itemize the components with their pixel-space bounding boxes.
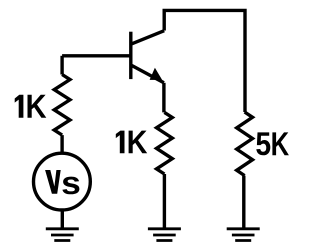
wire to source (60, 135, 63, 153)
label 5K glyph K (272, 132, 289, 155)
wire emitter vertical (162, 83, 165, 113)
transistor Q1 emitter diagonal (132, 66, 164, 83)
transistor Q1 emitter arrow (150, 68, 163, 80)
label Vs glyph s (62, 177, 79, 195)
wire base (62, 54, 129, 57)
ground under Vs (46, 229, 79, 241)
ground under 5K resistor (227, 229, 260, 241)
ground under middle resistor (148, 229, 181, 241)
resistor 1K left (54, 75, 70, 136)
wire left vertical (60, 56, 63, 75)
label 1K left glyph 1 (15, 95, 24, 118)
resistor 1K middle (157, 112, 173, 174)
label 1K middle glyph 1 (116, 131, 125, 154)
label 1K left glyph K (28, 95, 47, 118)
transistor Q1 collector diagonal (132, 31, 164, 44)
wire top rail (164, 10, 245, 112)
label 5K glyph 5 (256, 132, 270, 155)
wire source to ground (61, 211, 64, 229)
wire middle resistor to ground (163, 174, 166, 229)
transistor Q1 base bar (129, 32, 132, 79)
label 1K middle glyph K (129, 131, 148, 154)
source Vs circle (34, 153, 91, 210)
resistor 5K right (237, 112, 253, 176)
label Vs glyph V (45, 170, 61, 194)
wire right resistor to ground (242, 176, 245, 229)
